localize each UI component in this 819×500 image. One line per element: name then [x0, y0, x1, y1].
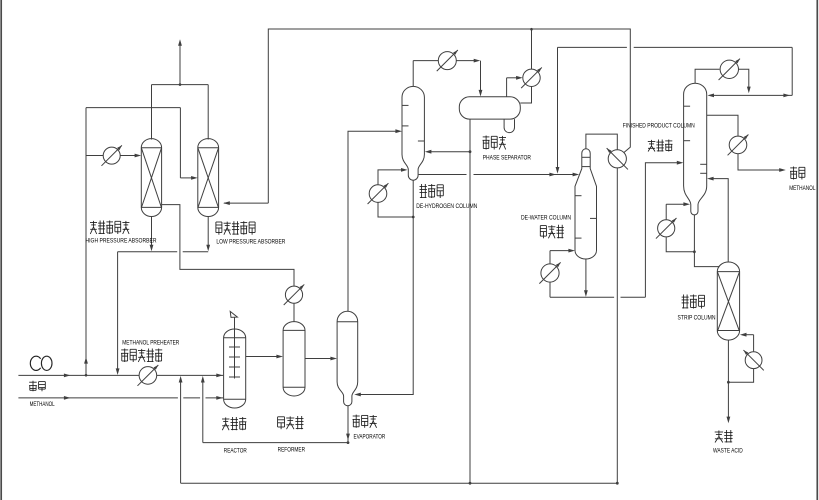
label: evaporator (Chinese)	[353, 415, 377, 428]
svg-text:METHANOL PREHEATER: METHANOL PREHEATER	[122, 339, 179, 346]
wire: de-water column feed line y=174.5	[419, 173, 580, 177]
label: DE-HYDROGEN COLUMN	[416, 203, 477, 210]
label: strip column (Chinese)	[682, 295, 705, 309]
wire: strip column reboiler loop	[727, 333, 754, 384]
label: waste acid (Chinese)	[715, 430, 733, 443]
heat exchanger: separator vapor condenser	[521, 67, 542, 88]
label: LOW PRESSURE ABSORBER	[216, 238, 285, 245]
heat exchanger: strip column reboiler	[743, 350, 763, 370]
wire: top recycle line y=29 from LP absorber to de-water HX	[223, 29, 630, 205]
wire: de-water overhead to exchanger and bottom recycle	[586, 134, 617, 483]
wire: recycle riser x=202.8 from evaporator bottoms	[201, 376, 205, 443]
svg-text:EVAPORATOR: EVAPORATOR	[354, 433, 386, 440]
svg-text:METHANOL: METHANOL	[30, 401, 55, 408]
wire: strip column overhead to finished column	[707, 177, 728, 262]
label: METHANOL feed	[30, 401, 55, 408]
wire: de-hydrogen reboiler loop	[378, 168, 415, 218]
wire: separator vapor to exchanger and return	[507, 76, 532, 103]
wire: bottom recycle header y=483	[181, 482, 619, 485]
label: HIGH PRESSURE ABSORBER	[86, 237, 157, 244]
heat exchanger: de-water feed heater	[539, 262, 560, 283]
wire: finished-column overhead product line y=47	[558, 47, 793, 97]
svg-text:DE-HYDROGEN COLUMN: DE-HYDROGEN COLUMN	[416, 203, 477, 210]
label: high pressure absorber (Chinese)	[90, 221, 129, 235]
label: PHASE SEPARATOR	[483, 155, 531, 162]
vessel: low pressure absorber	[198, 139, 219, 217]
label: FINISHED PRODUCT COLUMN	[623, 122, 695, 129]
label: methanol feed (Chinese)	[29, 381, 45, 392]
heat exchanger: absorber feed preheater	[101, 145, 121, 165]
wire: separator drain into de-hydrogen column	[425, 150, 472, 154]
label: phase separator (Chinese)	[483, 136, 507, 150]
wire: HP absorber side draw to reformer-preheat loop	[162, 205, 294, 322]
wire: separator bottoms drop leg x=470	[469, 119, 471, 483]
label: STRIP COLUMN	[678, 314, 716, 321]
wire: methanol feed line into reactor	[18, 396, 223, 400]
vessel: phase separator with boot	[459, 97, 520, 133]
heat exchanger: de-hydrogen reboiler	[368, 183, 389, 204]
wire: de-hydrogen overhead through condenser to separator	[413, 59, 482, 97]
wire: evaporator bottoms loop to reactor feed	[203, 406, 350, 444]
svg-text:HIGH PRESSURE ABSORBER: HIGH PRESSURE ABSORBER	[86, 237, 157, 244]
label: EVAPORATOR	[354, 433, 386, 440]
svg-text:REACTOR: REACTOR	[224, 448, 247, 455]
label: METHANOL PREHEATER	[122, 339, 179, 346]
label: REFORMER	[278, 447, 306, 454]
label: reformer (Chinese)	[278, 416, 304, 429]
wire: long recycle riser x=86 to absorber feed	[84, 156, 88, 377]
label: low pressure absorber (Chinese)	[216, 221, 255, 235]
wire: absorber overhead header with vent arrow	[152, 39, 209, 139]
heat exchanger: methanol product cooler	[728, 134, 749, 155]
wire: absorber bottoms header	[116, 216, 210, 375]
svg-text:METHANOL: METHANOL	[789, 185, 816, 192]
wire: CO feed line into reactor	[18, 374, 223, 378]
wire: link to LP absorber feed	[86, 108, 198, 180]
wire: de-water bottoms drop	[585, 259, 587, 292]
svg-text:PHASE SEPARATOR: PHASE SEPARATOR	[483, 155, 531, 162]
vessel: finished product column	[684, 83, 707, 215]
heat exchanger: reformer preheater	[284, 284, 305, 305]
label: METHANOL product	[789, 185, 816, 192]
label: DE-WATER COLUMN	[521, 214, 571, 221]
wire: vertical x=558 down into de-water feed	[556, 47, 560, 173]
label: methanol preheater (Chinese)	[121, 349, 162, 363]
label: reactor (Chinese)	[222, 417, 246, 430]
heat exchanger: methanol preheater	[137, 365, 158, 386]
svg-text:LOW PRESSURE ABSORBER: LOW PRESSURE ABSORBER	[216, 238, 285, 245]
wire: de-hydrogen bottoms to evaporator	[354, 180, 413, 396]
vessel: de-water column (bottle shape)	[575, 149, 597, 259]
wire: recycle riser x=180.6 from bottom header	[179, 376, 183, 483]
wire: top line riser into separator condenser HX	[530, 28, 533, 69]
wire: strip column bottoms to waste acid	[727, 340, 731, 423]
wire: finished column overhead condenser loop	[695, 69, 751, 93]
label: WASTE ACID	[713, 448, 743, 455]
svg-text:WASTE ACID: WASTE ACID	[713, 448, 743, 455]
vessel: high pressure absorber	[141, 139, 161, 217]
wire: reactor to reformer	[246, 355, 283, 359]
label: finished product column (Chinese)	[648, 140, 673, 152]
label: de-hydrogen column (Chinese)	[420, 184, 444, 198]
svg-text:REFORMER: REFORMER	[278, 447, 306, 454]
label: REACTOR	[224, 448, 247, 455]
vessel: evaporator	[337, 311, 358, 406]
wire: de-water feed side-exchanger loop	[550, 161, 683, 297]
wire: finished column bottoms to strip column	[694, 215, 719, 267]
vessel: reformer	[283, 322, 305, 396]
heat exchanger: finished column reboiler	[656, 218, 677, 239]
heat exchanger: finished column overhead condenser	[719, 59, 740, 80]
heat exchanger: de-water overhead cooler	[607, 148, 628, 169]
wire: HP absorber feed with preheat exchanger	[86, 108, 141, 158]
wire: finished column product draw to cooler and methanol out	[707, 115, 786, 172]
heat exchanger: de-hydrogen overhead condenser	[437, 50, 458, 71]
label: methanol product (Chinese)	[790, 167, 805, 180]
vessel: de-hydrogen column	[402, 86, 424, 180]
label: de-water column (Chinese)	[540, 225, 564, 239]
svg-text:DE-WATER COLUMN: DE-WATER COLUMN	[521, 214, 571, 221]
vessel: strip column	[717, 262, 739, 340]
svg-text:STRIP COLUMN: STRIP COLUMN	[678, 314, 716, 321]
wire: finished column reboiler loop	[666, 202, 696, 253]
wire: reformer to evaporator	[305, 357, 337, 361]
svg-text:FINISHED PRODUCT COLUMN: FINISHED PRODUCT COLUMN	[623, 122, 695, 129]
wire: evaporator overhead to de-hydrogen column feed	[348, 129, 402, 311]
vessel: reactor with agitator and vent flag	[224, 311, 246, 408]
label: CO feed	[30, 356, 52, 370]
